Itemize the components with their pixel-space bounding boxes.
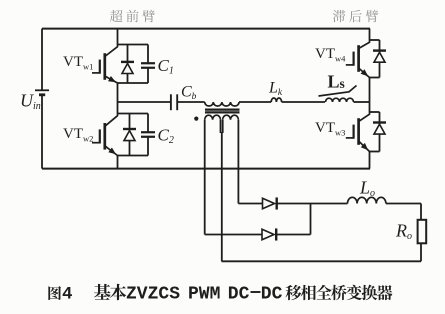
svg-text:PWM: PWM: [188, 285, 220, 305]
svg-text:ZVZCS: ZVZCS: [126, 285, 180, 305]
svg-text:4: 4: [62, 285, 73, 305]
svg-text:DC: DC: [228, 285, 250, 305]
svg-text:DC: DC: [261, 285, 283, 305]
